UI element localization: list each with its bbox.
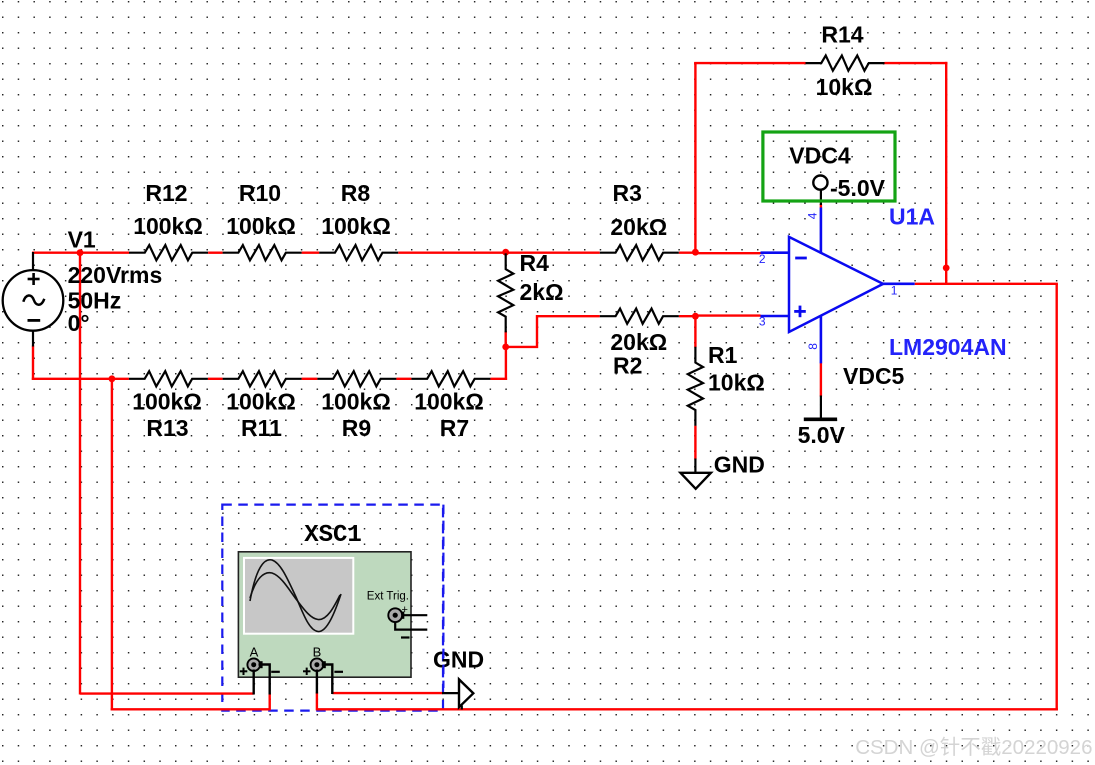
node junction V1 bottom — [109, 375, 116, 382]
wire node to opamp pin2 — [694, 252, 760, 254]
svg-text:R3: R3 — [613, 180, 642, 206]
svg-text:100kΩ: 100kΩ — [226, 213, 296, 239]
wire R1 gnd stub — [694, 459, 696, 473]
svg-text:4: 4 — [806, 212, 820, 219]
wire VDC4 stub — [820, 189, 822, 205]
svg-text:CSDN @针不戳20220926: CSDN @针不戳20220926 — [855, 736, 1092, 759]
wire R4 node to R2 — [506, 316, 600, 347]
wire top row from V1 — [32, 251, 129, 253]
resistor R1 — [688, 347, 703, 426]
svg-text:220Vrms: 220Vrms — [68, 262, 163, 288]
node junction R4 bottom — [502, 344, 509, 351]
wire right side drop — [1055, 284, 1057, 711]
resistor R11 — [223, 371, 302, 386]
node junction V1 top — [77, 249, 84, 256]
oscilloscope XSC1 body — [238, 552, 411, 677]
svg-text:R2: R2 — [613, 353, 642, 379]
svg-text:100kΩ: 100kΩ — [321, 213, 391, 239]
wire scope A- riser — [269, 694, 271, 711]
svg-text:A: A — [250, 644, 259, 659]
svg-text:100kΩ: 100kΩ — [133, 213, 203, 239]
wire scope A+ black riser — [252, 670, 254, 695]
wire scope B- black — [322, 665, 333, 695]
node junction output — [943, 265, 950, 272]
svg-text:10kΩ: 10kΩ — [708, 370, 765, 396]
wire R7 to corner — [490, 378, 507, 380]
wire down to R1 — [694, 316, 696, 347]
wire VDC4 pin red tick — [820, 204, 822, 208]
resistor R13 — [129, 371, 208, 386]
op-amp pin 4 wire — [820, 208, 823, 254]
resistor R2 — [600, 309, 679, 324]
svg-text:5.0V: 5.0V — [798, 422, 846, 448]
svg-text:R1: R1 — [708, 342, 738, 368]
resistor R9 — [317, 371, 396, 386]
svg-text:GND: GND — [433, 647, 484, 673]
svg-text:10kΩ: 10kΩ — [816, 74, 873, 100]
wire scope B- to GND red — [332, 692, 443, 694]
svg-text:R4: R4 — [520, 250, 550, 276]
wire V1 bottom drop — [32, 346, 34, 381]
svg-text:R7: R7 — [440, 415, 469, 441]
svg-text:R14: R14 — [821, 22, 863, 48]
wire R11-R9 — [302, 378, 318, 380]
instrument XSC1 boundary right edge overlay — [442, 505, 444, 688]
svg-text:XSC1: XSC1 — [304, 522, 362, 549]
instrument XSC1 dashed boundary — [222, 505, 443, 711]
svg-text:VDC4: VDC4 — [789, 143, 851, 169]
op-amp output wire — [882, 282, 915, 285]
svg-text:V1: V1 — [68, 227, 96, 253]
wire opamp output — [915, 283, 1058, 285]
wire R9-R7 — [396, 378, 411, 380]
Ext Trig terminal — [398, 612, 405, 619]
wire R8 to R4 node — [398, 251, 507, 253]
wire bottom row from V1 — [32, 378, 129, 380]
wire to scope A+ — [80, 692, 254, 694]
AC source V1 — [3, 270, 64, 331]
op-amp pin 8 wire — [820, 315, 823, 363]
wire opamp pin8 red — [820, 363, 822, 397]
node junction R3/R14 — [692, 249, 699, 256]
VDC4 probe box — [763, 132, 895, 201]
svg-text:0°: 0° — [68, 310, 90, 336]
wire GND arrow to bus — [461, 706, 463, 710]
resistor R8 — [319, 245, 398, 260]
Ext Trig plus stub — [402, 614, 428, 616]
node junction R2/R1 — [692, 313, 699, 320]
resistor R4 — [498, 253, 513, 332]
wire node to opamp pin3 — [694, 314, 760, 316]
wire scope B+ black riser — [316, 670, 318, 694]
scope trace B — [250, 573, 340, 620]
wire R14 right leg down to output — [945, 62, 947, 284]
svg-text:Ext Trig.: Ext Trig. — [367, 591, 409, 603]
wire left drop to scope A+ — [79, 252, 81, 695]
svg-text:U1A: U1A — [889, 204, 935, 230]
ground symbol (below R1) — [681, 473, 711, 489]
node junction R4 top — [502, 249, 509, 256]
wire R14 top left — [694, 62, 805, 64]
svg-text:B: B — [313, 644, 322, 659]
svg-text:GND: GND — [714, 451, 765, 477]
resistor R10 — [223, 245, 302, 260]
resistor R12 — [129, 245, 208, 260]
oscilloscope screen — [243, 557, 354, 635]
svg-text:100kΩ: 100kΩ — [226, 389, 296, 415]
svg-text:R11: R11 — [241, 415, 282, 441]
svg-text:-5.0V: -5.0V — [830, 175, 886, 201]
resistor R7 — [411, 371, 490, 386]
wire VDC5 stub — [820, 396, 822, 419]
wire R14 top right — [885, 62, 948, 64]
wire bottom bus right segment — [317, 708, 1058, 710]
op-amp pin 3 wire — [761, 315, 790, 318]
svg-text:20kΩ: 20kΩ — [610, 329, 667, 355]
op-amp pin 2 wire — [761, 251, 790, 254]
svg-text:+: + — [402, 604, 408, 616]
svg-text:20kΩ: 20kΩ — [610, 214, 667, 240]
svg-text:R9: R9 — [342, 415, 371, 441]
wire R1 to GND stub red — [694, 426, 696, 460]
svg-text:100kΩ: 100kΩ — [132, 389, 202, 415]
ground arrow connector (scope) — [459, 679, 473, 707]
svg-text:R10: R10 — [239, 180, 281, 206]
svg-text:R12: R12 — [145, 180, 187, 206]
wire R14 left leg — [694, 62, 696, 253]
wire corner up to R4 bottom node — [505, 347, 507, 380]
resistor R3 — [600, 245, 679, 260]
svg-text:R13: R13 — [146, 415, 188, 441]
Ext Trig minus stub — [395, 622, 427, 630]
wire bottom bus left segment — [111, 708, 270, 710]
svg-text:LM2904AN: LM2904AN — [889, 334, 1007, 360]
wire R4 bottom lead red — [505, 331, 507, 347]
wire R10-R8 — [302, 251, 320, 253]
scope trace A — [250, 560, 341, 632]
wire R13-R11 — [208, 378, 223, 380]
VDC4 terminal circle — [813, 176, 827, 190]
wire V1 top stub — [32, 252, 34, 271]
svg-text:1: 1 — [891, 284, 898, 298]
VDC5 rail bar — [804, 417, 837, 421]
svg-text:3: 3 — [759, 314, 766, 328]
resistor R14 — [806, 56, 885, 71]
svg-text:100kΩ: 100kΩ — [414, 389, 484, 415]
svg-text:8: 8 — [806, 343, 820, 350]
svg-text:2: 2 — [759, 252, 766, 266]
wire R4 node to R3 — [505, 251, 600, 253]
svg-text:100kΩ: 100kΩ — [321, 389, 391, 415]
wire R12-R10 — [208, 251, 223, 253]
op-amp U1A — [789, 237, 883, 332]
wire scope B+ riser red — [316, 692, 318, 710]
svg-text:VDC5: VDC5 — [843, 363, 905, 389]
wire V1 bottom stub — [32, 330, 34, 346]
wire second drop to bottom bus — [111, 378, 113, 711]
wire R3 to R14 node — [679, 251, 697, 253]
wire R2 to R1 node — [679, 315, 697, 317]
svg-text:2kΩ: 2kΩ — [520, 279, 564, 305]
wire scope A- black — [259, 665, 270, 695]
wire to GND arrow — [442, 692, 460, 694]
svg-text:R8: R8 — [341, 180, 371, 206]
